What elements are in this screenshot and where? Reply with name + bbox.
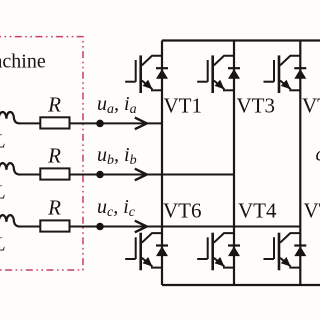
node b	[96, 171, 104, 179]
machine dashed enclosure	[0, 37, 83, 270]
inductor Lb	[0, 163, 20, 174]
node c	[96, 223, 104, 231]
diode VT6 antiparallel	[156, 246, 168, 257]
IGBT VT1	[125, 55, 162, 93]
svg-text:L: L	[0, 234, 6, 256]
svg-text:VT3: VT3	[237, 93, 276, 117]
diode VT5 antiparallel	[294, 68, 306, 79]
wire coil to Rc	[19, 226, 40, 228]
svg-text:VT6: VT6	[163, 199, 202, 223]
resistor R (phase a)	[40, 117, 69, 128]
wire coil to Rb	[19, 174, 40, 176]
svg-text:ub, ib: ub, ib	[97, 144, 137, 168]
svg-text:R: R	[47, 92, 61, 116]
svg-text:L: L	[0, 182, 6, 204]
IGBT VT2	[264, 233, 301, 271]
svg-text:R: R	[47, 143, 61, 167]
dc bus positive	[162, 39, 320, 41]
diode VT1 antiparallel	[156, 68, 168, 79]
inductor Lc	[0, 215, 20, 226]
wire Rb to leg2	[70, 174, 235, 176]
svg-text:R: R	[47, 195, 61, 219]
svg-text:uc, ic: uc, ic	[97, 196, 136, 220]
resistor R (phase c)	[40, 220, 69, 231]
node a	[96, 120, 104, 128]
inductor La	[0, 112, 20, 123]
svg-text:VT1: VT1	[164, 93, 203, 117]
svg-text:c: c	[316, 144, 320, 166]
diode VT3 antiparallel	[228, 68, 240, 79]
wire Rc to leg3	[70, 226, 301, 228]
IGBT VT3	[197, 55, 234, 93]
arrow phase c	[135, 221, 147, 233]
leg 3	[299, 41, 301, 286]
svg-text:L: L	[0, 131, 6, 153]
diode VT4 antiparallel	[228, 246, 240, 257]
arrow phase b	[135, 169, 147, 181]
svg-text:ua, ia: ua, ia	[97, 93, 137, 117]
IGBT VT5	[264, 55, 301, 93]
svg-text:VT2: VT2	[304, 199, 320, 223]
svg-text:VT5: VT5	[302, 93, 320, 117]
resistor R (phase b)	[40, 168, 69, 179]
leg 1	[161, 41, 163, 286]
IGBT VT4	[197, 233, 234, 271]
wire Ra to leg1	[70, 122, 163, 124]
svg-text:VT4: VT4	[238, 199, 277, 223]
leg 2	[233, 41, 235, 286]
dc bus negative	[162, 284, 320, 286]
arrow phase a	[135, 118, 147, 130]
diode VT2 antiparallel	[294, 246, 306, 257]
IGBT VT6	[125, 233, 162, 271]
svg-text:machine: machine	[0, 51, 46, 73]
wire coil to Ra	[19, 122, 40, 124]
